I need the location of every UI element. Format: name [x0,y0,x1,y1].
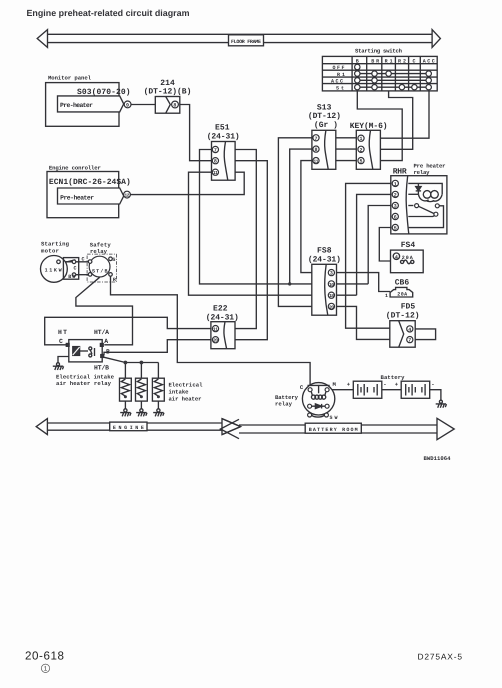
svg-text:motor: motor [41,247,59,254]
svg-text:D275AX-5: D275AX-5 [418,652,463,662]
svg-text:BO: BO [68,274,75,280]
svg-text:-: - [383,381,386,388]
svg-text:4: 4 [408,327,411,333]
svg-text:11: 11 [314,160,319,165]
svg-text:8: 8 [214,159,217,165]
svg-text:FS8: FS8 [317,246,332,255]
svg-text:Starting switch: Starting switch [355,47,403,54]
svg-text:A: A [104,338,108,345]
svg-text:C: C [59,338,63,345]
svg-text:11: 11 [213,328,218,333]
svg-text:ACC: ACC [331,79,343,85]
svg-text:(24-31): (24-31) [207,132,240,141]
svg-text:(DT-12): (DT-12) [308,112,341,121]
svg-text:18: 18 [329,293,334,299]
svg-text:(Gr ): (Gr ) [314,121,338,130]
svg-text:CB6: CB6 [395,279,410,288]
svg-text:7: 7 [408,338,411,344]
svg-text:S: S [112,257,115,263]
svg-text:FS4: FS4 [401,241,416,250]
svg-text:air heater: air heater [169,396,202,403]
svg-text:SW: SW [330,415,338,421]
svg-text:BR: BR [371,58,379,64]
svg-text:8: 8 [173,103,176,109]
svg-text:12: 12 [125,193,130,199]
svg-text:(24-31): (24-31) [308,255,341,264]
svg-text:Electrical: Electrical [169,382,204,389]
svg-text:6: 6 [394,215,397,221]
svg-text:20A: 20A [397,291,407,297]
svg-text:C: C [74,265,77,271]
svg-text:20: 20 [213,338,218,344]
svg-text:10: 10 [329,282,334,288]
svg-text:ACC: ACC [423,58,435,64]
svg-text:(DT-12)(B): (DT-12)(B) [144,87,192,96]
svg-text:St: St [336,85,344,91]
svg-text:1: 1 [44,666,48,673]
svg-text:C: C [413,58,416,64]
svg-text:3: 3 [394,204,397,210]
svg-text:ECN1(DRC-26-24SA): ECN1(DRC-26-24SA) [49,178,131,187]
svg-text:relay: relay [275,400,293,407]
svg-text:ST/B: ST/B [92,268,108,274]
svg-text:20: 20 [329,304,334,310]
svg-text:Engine preheat-related circuit: Engine preheat-related circuit diagram [27,8,190,18]
svg-text:HT: HT [58,329,67,336]
svg-text:4: 4 [395,254,398,260]
svg-text:7: 7 [214,148,217,154]
svg-text:20-618: 20-618 [25,649,64,662]
svg-text:BWD11064: BWD11064 [424,455,452,462]
svg-text:RHR: RHR [393,167,407,176]
svg-text:2: 2 [394,192,397,198]
svg-text:R2: R2 [398,58,406,64]
svg-text:R1: R1 [337,72,345,78]
svg-text:FLOOR FRAME: FLOOR FRAME [231,39,261,45]
svg-text:R: R [113,277,116,283]
svg-text:R1: R1 [385,58,393,64]
svg-text:FD5: FD5 [401,303,416,312]
svg-text:air heater relay: air heater relay [56,380,112,387]
svg-text:C: C [82,257,85,263]
svg-text:Starting: Starting [41,240,70,247]
svg-text:OFF: OFF [333,65,345,71]
svg-text:Pre-heater: Pre-heater [60,102,93,109]
svg-text:E22: E22 [213,304,228,313]
svg-text:5: 5 [394,226,397,232]
svg-text:B: B [106,349,110,356]
svg-text:S03(070-20): S03(070-20) [77,88,131,97]
svg-text:9: 9 [126,102,129,108]
svg-text:11KW: 11KW [45,267,62,273]
svg-text:E51: E51 [215,124,230,133]
svg-text:S13: S13 [317,103,332,112]
svg-text:-: - [431,381,434,388]
svg-text:8: 8 [315,147,318,153]
svg-text:1: 1 [394,181,397,187]
svg-text:relay: relay [414,169,431,176]
svg-text:11: 11 [213,171,218,176]
svg-text:HT/A: HT/A [94,329,109,336]
svg-text:B: B [356,58,359,64]
svg-text:2: 2 [360,147,363,153]
svg-text:Pre-heater: Pre-heater [60,194,94,201]
svg-text:intake: intake [169,389,190,396]
svg-text:1: 1 [385,293,388,299]
svg-text:7: 7 [315,136,318,142]
svg-text:5: 5 [360,159,363,165]
svg-text:20A: 20A [402,255,413,261]
svg-text:1: 1 [360,136,363,142]
svg-text:(DT-12): (DT-12) [386,312,420,321]
svg-text:3: 3 [330,271,333,277]
svg-text:Engine conroller: Engine conroller [49,164,101,171]
svg-text:Monitor panel: Monitor panel [48,75,92,82]
svg-text:HT/B: HT/B [94,365,109,372]
